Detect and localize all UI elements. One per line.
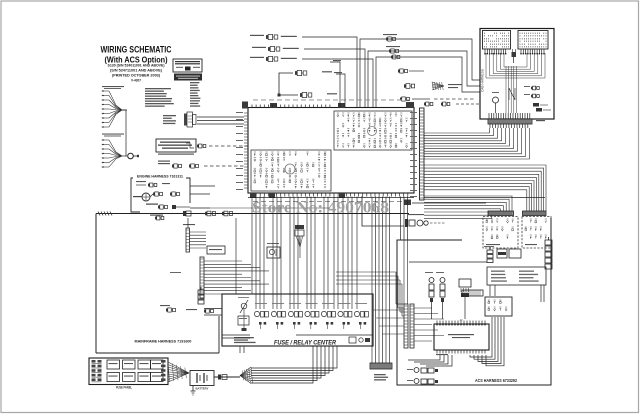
svg-text:(PRINTED OCTOBER 2003): (PRINTED OCTOBER 2003) — [112, 74, 160, 78]
svg-text:FUSE / RELAY CENTER: FUSE / RELAY CENTER — [274, 340, 336, 347]
svg-text:FUSE PANEL: FUSE PANEL — [116, 386, 132, 390]
svg-text:ACS HARNESS 6733292: ACS HARNESS 6733292 — [475, 378, 518, 383]
svg-text:(S/N 524711001 AND ABOVE): (S/N 524711001 AND ABOVE) — [110, 69, 162, 73]
svg-text:Store No: 4907068: Store No: 4907068 — [252, 200, 389, 217]
svg-text:CAB HARNESS: CAB HARNESS — [481, 69, 485, 92]
svg-text:MAINFRAME HARNESS 7191600: MAINFRAME HARNESS 7191600 — [135, 340, 192, 344]
svg-text:V-4307: V-4307 — [131, 79, 141, 83]
svg-text:BATTERY: BATTERY — [196, 387, 209, 391]
svg-text:WIRING SCHEMATIC: WIRING SCHEMATIC — [101, 45, 172, 55]
svg-text:S130 (S/N 524011001 AND ABOVE): S130 (S/N 524011001 AND ABOVE) — [108, 64, 165, 68]
svg-text:ENGINE HARNESS 7161311: ENGINE HARNESS 7161311 — [137, 175, 183, 179]
svg-text:J2: J2 — [459, 318, 463, 322]
